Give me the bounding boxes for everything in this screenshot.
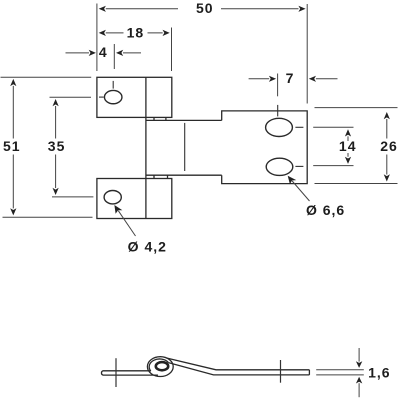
ext line left (50/18/4) — [96, 4, 98, 72]
dim line 50 — [106, 8, 299, 10]
strip centerline — [184, 123, 186, 171]
ext line hole center (7) — [277, 74, 279, 97]
fold line left leaf — [145, 77, 147, 218]
centerline dash left of top tab hole — [99, 96, 104, 98]
centerline dash right of plate top hole — [295, 126, 303, 128]
svg-text:4: 4 — [99, 44, 108, 60]
svg-text:Ø 4,2: Ø 4,2 — [128, 238, 167, 254]
arrow 50 right — [298, 6, 305, 12]
knuckle tick top b — [165, 117, 167, 120]
ext line top of part (51) — [1, 76, 92, 78]
centerline dash above plate top hole — [277, 105, 279, 117]
svg-text:1,6: 1,6 — [368, 364, 390, 380]
side bar left leaf — [101, 371, 158, 375]
arrow stem 1,6 bottom — [358, 383, 360, 397]
ext line top hole center (35) — [50, 96, 92, 98]
dim line 4 left tail — [66, 52, 90, 54]
dim line 35 — [55, 106, 57, 188]
svg-text:14: 14 — [339, 138, 357, 154]
ext line 1,6 top — [316, 369, 364, 371]
knuckle tick top a — [153, 117, 155, 120]
curl ring — [156, 362, 168, 370]
dim line 7 left tail — [249, 78, 270, 80]
svg-text:Ø 6,6: Ø 6,6 — [306, 202, 345, 218]
dim line 26 — [386, 119, 388, 175]
curl outer — [147, 357, 173, 377]
bottom-left tab outline — [97, 179, 172, 219]
leader line dia 4,2 — [118, 211, 135, 236]
ext line plate top (26) — [315, 107, 398, 109]
arrow stem 1,6 top — [358, 348, 360, 362]
knuckle tick bottom a — [153, 175, 155, 178]
hole top tab — [104, 90, 122, 103]
dim line 14 — [347, 136, 349, 156]
ext line plate right (50/7) — [306, 4, 308, 104]
hole plate bottom — [266, 158, 293, 175]
svg-text:50: 50 — [196, 0, 214, 16]
arrow leader dia 6,6 — [288, 176, 297, 185]
arrow 35 top — [53, 99, 59, 106]
ext line bottom hole center (35) — [52, 196, 93, 198]
dim line 4 right tail — [123, 52, 141, 54]
arrow 35 bottom — [53, 188, 59, 195]
strip top edge — [146, 119, 222, 121]
side view tick left — [115, 358, 117, 387]
dim line 51 — [12, 86, 14, 208]
arrow 7 left — [269, 76, 276, 82]
ext line bottom of part (51) — [3, 216, 93, 218]
knuckle tick bottom b — [167, 175, 169, 178]
ext line plate bottom (26) — [315, 183, 398, 185]
arrow 51 bottom — [10, 208, 16, 215]
hole plate top — [266, 118, 293, 136]
arrow 18 right — [163, 30, 170, 36]
arrow leader dia 4,2 — [114, 205, 122, 214]
hole bottom tab — [104, 191, 121, 204]
arrow 51 top — [10, 79, 16, 86]
svg-text:7: 7 — [286, 70, 295, 86]
arrow 18 left — [99, 30, 106, 36]
centerline dash above top tab hole — [112, 81, 114, 89]
dim line 7 right tail — [316, 78, 338, 80]
ext line 1,6 bottom — [316, 374, 364, 376]
curl inner surface — [149, 359, 168, 371]
arrow 50 left — [99, 6, 106, 12]
arrow 14 bottom — [345, 157, 351, 164]
arrow 14 top — [345, 129, 351, 136]
arrow 1,6 down — [356, 361, 362, 368]
strip bottom edge — [146, 174, 222, 176]
svg-text:35: 35 — [48, 138, 66, 154]
side right leaf end — [308, 370, 310, 375]
arrow 7 right — [309, 76, 316, 82]
right plate outline — [222, 111, 308, 184]
ext line plate hole top (14) — [313, 126, 353, 128]
side right leaf diagonal bottom — [168, 363, 309, 375]
centerline dash right of plate bottom hole — [295, 165, 303, 167]
ext line right tab edge (18) — [171, 28, 173, 72]
leader line dia 6,6 — [292, 181, 309, 201]
arrow 4 left — [89, 50, 96, 56]
ext line plate hole bottom (14) — [313, 165, 353, 167]
arrow 1,6 up — [356, 377, 362, 384]
svg-text:26: 26 — [380, 138, 398, 154]
side view tick right — [280, 360, 282, 383]
svg-text:18: 18 — [127, 24, 145, 40]
top-left tab outline — [97, 77, 172, 117]
arrow 4 right — [116, 50, 123, 56]
arrow 26 bottom — [384, 174, 390, 181]
arrow 26 top — [384, 112, 390, 119]
dim line 18 — [106, 32, 163, 34]
svg-text:51: 51 — [3, 138, 21, 154]
ext line hole center (4) — [113, 44, 115, 69]
side right leaf diagonal top — [167, 358, 310, 370]
